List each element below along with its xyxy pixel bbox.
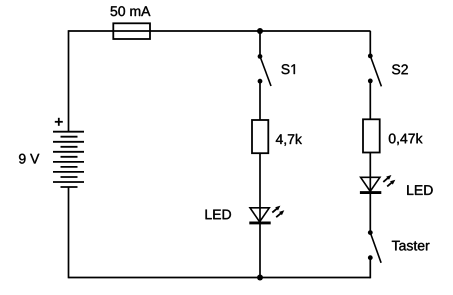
wire bottom rail [69, 277, 371, 279]
battery BT1 plus sign [55, 118, 63, 126]
node junction bottom rail / branch 1 [257, 275, 263, 281]
battery BT1 plates [53, 132, 84, 187]
resistor R2 [363, 119, 380, 152]
value label 50 mA [111, 6, 151, 16]
label LED branch 2 [407, 185, 432, 195]
value label 4,7k [276, 134, 302, 146]
switch S1 [258, 54, 271, 86]
wire S2 to R2 [369, 81, 371, 119]
wire top rail [69, 30, 371, 32]
wire R1 to LED1 [259, 153, 261, 222]
wire left vertical top (rail to battery +) [68, 30, 70, 132]
LED D1 [249, 206, 284, 223]
wire LED1 to bottom rail [259, 223, 261, 278]
label Taster [392, 241, 430, 251]
wire S1 to R1 [259, 81, 261, 120]
node junction top rail / branch 1 [257, 28, 263, 34]
label LED branch 1 [206, 210, 231, 220]
label S1 [281, 64, 294, 74]
LED D2 [360, 175, 395, 193]
switch S2 [368, 54, 382, 87]
value label 9 V [19, 154, 39, 164]
resistor R1 [252, 120, 268, 153]
value label 0,47k [389, 133, 423, 145]
wire rail to S1 [259, 31, 261, 56]
wire left vertical bottom (battery - to bottom rail) [68, 187, 70, 278]
fuse F1 [113, 23, 150, 39]
wire top right corner to S2 [369, 31, 371, 56]
wire R2 to LED2 [369, 153, 371, 193]
push button Taster [368, 230, 381, 263]
wire LED2 to Taster [369, 193, 371, 233]
wire Taster to bottom rail [369, 258, 371, 279]
label S2 [392, 64, 408, 74]
